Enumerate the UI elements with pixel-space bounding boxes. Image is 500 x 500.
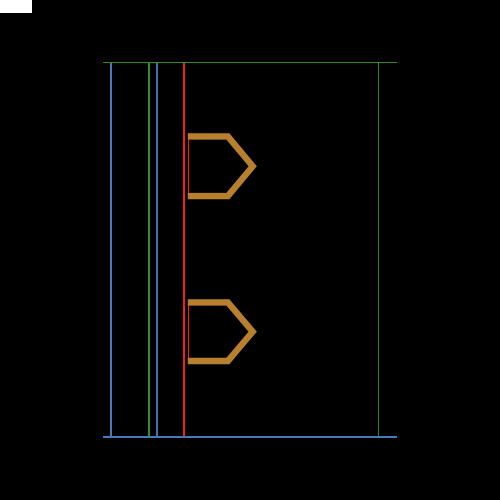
white corner rectangle — [0, 0, 32, 13]
vertical red line — [183, 62, 185, 438]
bottom horizontal blue line — [103, 436, 397, 438]
red segment at flag 2 left edge — [188, 302, 190, 363]
vertical green line 1 — [148, 62, 150, 438]
orange flag 1 — [188, 136, 253, 196]
red segment at flag 1 left edge — [188, 136, 190, 197]
vertical green line 2 (right) — [378, 62, 380, 437]
vertical blue line 1 — [110, 62, 112, 438]
top horizontal green line — [103, 62, 397, 64]
orange flag 2 — [188, 302, 253, 361]
vertical blue line 2 — [156, 62, 158, 438]
